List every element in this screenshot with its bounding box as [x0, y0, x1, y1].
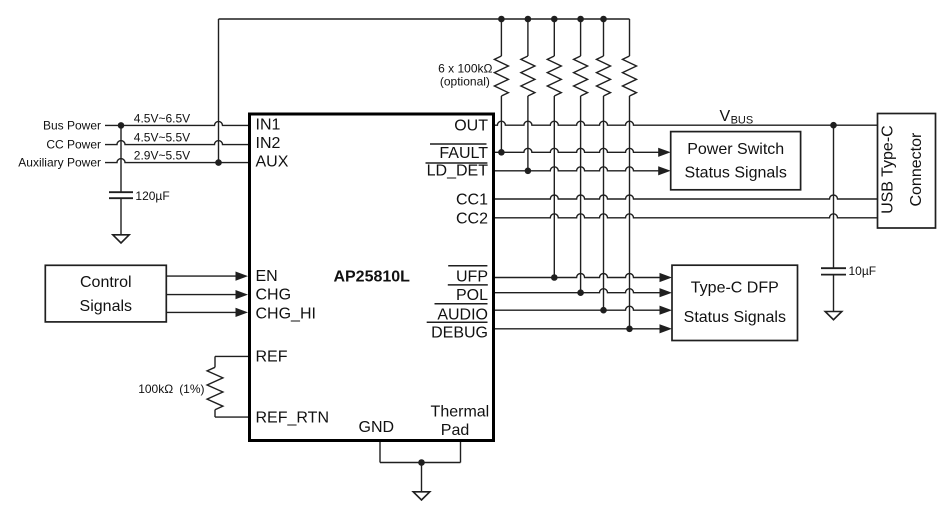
usb type-c connector box [878, 114, 936, 229]
power switch status signals box [671, 132, 801, 190]
capacitor C1 120uF [109, 191, 133, 193]
svg-text:Auxiliary Power: Auxiliary Power [18, 156, 101, 170]
wire: REF pin out [215, 355, 248, 357]
svg-text:10µF: 10µF [849, 264, 877, 278]
svg-text:DEBUG: DEBUG [431, 325, 488, 342]
svg-text:(optional): (optional) [440, 74, 490, 88]
svg-text:Bus Power: Bus Power [43, 119, 101, 133]
wire: POL to DFP box [495, 289, 661, 293]
wire: control signal to EN with arrow [166, 275, 237, 277]
wire: CC2 to connector [495, 214, 878, 218]
node: R3 bottom junction [551, 274, 558, 281]
wire: bus power down to capacitor [120, 125, 122, 192]
wire: to REF_RTN pin [215, 416, 248, 418]
wire: pull-up rail from AUX vertical across resistor tops [219, 18, 630, 20]
svg-text:POL: POL [456, 287, 488, 304]
svg-text:Type-C DFP: Type-C DFP [691, 279, 779, 296]
wire: CC Power to IN2 [105, 141, 248, 145]
svg-text:Thermal: Thermal [431, 404, 490, 421]
node: R2 bottom junction [525, 168, 532, 175]
svg-text:4.5V~6.5V: 4.5V~6.5V [134, 111, 190, 125]
svg-text:4.5V~5.5V: 4.5V~5.5V [134, 131, 190, 145]
svg-text:100kΩ: 100kΩ [138, 382, 173, 396]
resistor R6 100k pull-up [629, 19, 631, 56]
wire: 10uF to ground [833, 275, 835, 312]
node: AUX junction with pull-up rail vertical [215, 159, 222, 166]
wire: GND pin down [379, 442, 381, 463]
svg-text:FAULT: FAULT [439, 145, 488, 162]
wire: CC1 to connector [495, 195, 878, 199]
overline for AUDIO [435, 303, 488, 305]
node: bus power junction to 120uF [118, 122, 125, 129]
svg-text:GND: GND [359, 419, 395, 436]
svg-text:IN1: IN1 [256, 116, 281, 133]
overline for LD_DET [426, 162, 488, 164]
overline for FAULT [430, 143, 487, 145]
wire: bottom tie [380, 462, 461, 464]
overline for DEBUG [427, 321, 488, 323]
wire: OUT to VBUS to connector [495, 121, 878, 125]
node: rail junction R4 [577, 16, 584, 23]
type-c dfp status signals box [672, 265, 798, 340]
svg-text:CC1: CC1 [456, 192, 488, 209]
node: R1 bottom junction [498, 149, 505, 156]
svg-text:UFP: UFP [456, 269, 488, 286]
svg-text:USB Type-C: USB Type-C [880, 125, 897, 214]
wire: thermal pad down [460, 442, 462, 463]
ground symbol (10uF) [825, 312, 842, 320]
svg-text:CC Power: CC Power [46, 138, 101, 152]
svg-text:AUX: AUX [256, 153, 289, 170]
wire: DEBUG to DFP box [495, 328, 661, 330]
wire: UFP to DFP box [495, 274, 661, 278]
node: R4 bottom junction [577, 289, 584, 296]
resistor R1 100k pull-up [500, 19, 502, 56]
ground symbol (120uF) [113, 235, 129, 243]
svg-text:Connector: Connector [908, 132, 925, 206]
svg-text:V: V [720, 108, 731, 125]
wire: control signal to CHG with arrow [166, 294, 237, 296]
node: rail junction R2 [525, 16, 532, 23]
wire: LD_DET to power switch box [495, 167, 660, 171]
svg-text:Pad: Pad [441, 422, 469, 439]
node: rail junction R1 [498, 16, 505, 23]
control signals source box [45, 265, 166, 322]
svg-text:BUS: BUS [731, 114, 754, 126]
resistor R3 100k pull-up [553, 19, 555, 56]
wire: AUDIO to DFP box [495, 306, 661, 310]
resistor R4 100k pull-up [580, 19, 582, 56]
ground symbol (IC) [413, 492, 430, 500]
svg-text:CHG: CHG [256, 287, 292, 304]
node: gnd junction [418, 459, 425, 466]
wire: capacitor to ground [120, 198, 122, 235]
svg-text:CC2: CC2 [456, 210, 488, 227]
node: R6 bottom junction [626, 326, 633, 333]
svg-text:CHG_HI: CHG_HI [256, 305, 316, 322]
node: R5 bottom junction [600, 307, 607, 314]
wire: Auxiliary Power to AUX [105, 159, 248, 163]
svg-text:Control: Control [80, 274, 132, 291]
svg-text:REF_RTN: REF_RTN [256, 409, 330, 426]
svg-text:IN2: IN2 [256, 135, 281, 152]
svg-text:AUDIO: AUDIO [437, 307, 488, 324]
overline for UFP [448, 265, 487, 267]
op-amp U1: AP25810L controller IC body [250, 114, 494, 441]
wire: control signal to CHG_HI with arrow [166, 311, 237, 313]
svg-text:REF: REF [256, 348, 288, 365]
node: rail junction R3 [551, 16, 558, 23]
svg-text:Status Signals: Status Signals [684, 309, 786, 326]
wire: FAULT to power switch box [495, 148, 660, 152]
resistor R2 100k pull-up [527, 19, 529, 56]
svg-text:2.9V~5.5V: 2.9V~5.5V [134, 149, 190, 163]
wire: vertical from rail down to AUX line [218, 19, 220, 163]
svg-text:OUT: OUT [454, 118, 488, 135]
svg-text:AP25810L: AP25810L [333, 269, 410, 286]
wire: Bus Power to IN1 [105, 121, 248, 125]
capacitor C2 10uF [821, 267, 846, 269]
resistor R5 100k pull-up [603, 19, 605, 56]
svg-text:Power Switch: Power Switch [687, 141, 784, 158]
node: VBUS junction to 10uF [830, 122, 837, 129]
svg-text:LD_DET: LD_DET [427, 163, 489, 180]
resistor R7 100k 1% [214, 356, 216, 367]
overline for POL [448, 284, 488, 286]
node: rail junction R5 [600, 16, 607, 23]
svg-text:(1%): (1%) [179, 382, 204, 396]
svg-text:EN: EN [256, 268, 278, 285]
svg-text:Status Signals: Status Signals [685, 165, 787, 182]
svg-text:Signals: Signals [80, 298, 132, 315]
svg-text:120µF: 120µF [135, 189, 169, 203]
wire: VBUS down to 10uF [833, 125, 835, 268]
wire: to ground symbol [421, 463, 423, 492]
